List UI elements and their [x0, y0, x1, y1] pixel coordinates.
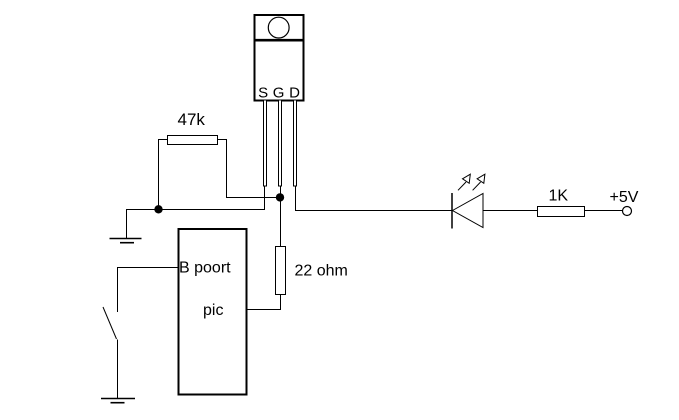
junction dot source/ground node — [154, 205, 162, 213]
Q1 drain lead — [294, 100, 297, 186]
wire source lead down to ground rail — [264, 187, 266, 210]
junction dot gate node — [276, 193, 284, 201]
wire R3 to +5V terminal — [585, 210, 623, 212]
wire ground stem — [126, 210, 128, 239]
Q1 gate lead — [279, 100, 282, 186]
wire drain lead down and right to LED — [296, 187, 453, 211]
svg-text:pic: pic — [203, 302, 223, 319]
svg-text:S: S — [258, 85, 268, 102]
transistor Q1 TO-220 package body — [255, 15, 304, 101]
Q1 mounting hole — [268, 17, 289, 38]
ground symbol (source) — [110, 239, 142, 243]
svg-text:D: D — [289, 85, 300, 102]
terminal +5V open circle — [623, 207, 632, 216]
resistor R3 1K body — [538, 207, 585, 217]
R1 right lead — [218, 140, 227, 198]
wire ground rail horizontal — [126, 209, 265, 211]
svg-text:22 ohm: 22 ohm — [295, 263, 348, 280]
LED D1 triangle — [453, 194, 484, 228]
LED emission arrow 1 — [458, 174, 470, 190]
switch S1 blade — [103, 307, 117, 339]
svg-text:G: G — [273, 85, 285, 102]
LED D1 cathode bar — [451, 193, 453, 229]
svg-text:B poort: B poort — [179, 260, 231, 277]
svg-text:+5V: +5V — [610, 189, 639, 206]
IC U1 pic microcontroller box — [179, 229, 247, 395]
wire PIC B port to switch — [118, 268, 178, 313]
wire switch to ground — [117, 340, 119, 399]
R1 left lead — [159, 140, 168, 210]
Q1 tab divider line — [254, 39, 305, 42]
R2 bottom lead — [248, 295, 281, 310]
ground symbol (switch) — [101, 399, 135, 403]
resistor R1 47k body — [168, 136, 218, 145]
svg-text:47k: 47k — [178, 110, 206, 129]
LED emission arrow 2 — [473, 174, 485, 190]
wire 47k to gate node — [226, 197, 281, 199]
Q1 source lead — [264, 100, 267, 186]
wire LED to R3 — [483, 210, 537, 212]
wire gate lead through node to R2 — [280, 187, 282, 247]
svg-text:1K: 1K — [549, 188, 569, 205]
resistor R2 22 ohm body — [276, 247, 286, 295]
